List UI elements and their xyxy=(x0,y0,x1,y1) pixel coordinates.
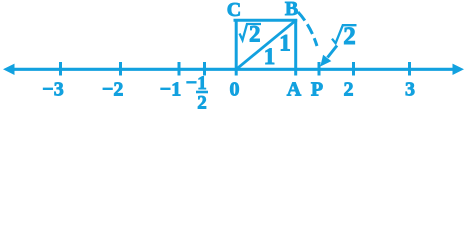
svg-text:1: 1 xyxy=(264,44,276,69)
right arrowhead xyxy=(453,64,465,75)
svg-text:2: 2 xyxy=(197,93,207,112)
sqrt2 radical inside square xyxy=(240,24,262,40)
label -1/2 fraction bar xyxy=(196,91,208,94)
dashed arc from B xyxy=(298,12,317,46)
tick 2 xyxy=(352,62,355,76)
svg-text:−1: −1 xyxy=(160,79,181,101)
svg-text:3: 3 xyxy=(405,79,415,101)
pointer arrowhead at P xyxy=(320,55,331,67)
pointer arrow shaft from sqrt2 label to P xyxy=(328,46,338,58)
square OABC top edge xyxy=(234,19,298,22)
svg-text:P: P xyxy=(311,79,323,101)
tick -1 xyxy=(178,62,181,76)
svg-text:0: 0 xyxy=(230,79,240,101)
svg-text:A: A xyxy=(287,79,302,101)
number line xyxy=(11,68,456,71)
svg-text:−3: −3 xyxy=(42,79,63,101)
sqrt2 radical right label xyxy=(332,25,357,43)
svg-text:−2: −2 xyxy=(102,79,123,101)
tick 0 / square left edge xyxy=(235,19,238,76)
svg-text:−: − xyxy=(186,72,197,94)
svg-text:2: 2 xyxy=(344,79,354,101)
tick P xyxy=(318,62,321,76)
tick -2 xyxy=(119,62,122,76)
svg-text:B: B xyxy=(285,0,298,20)
svg-text:2: 2 xyxy=(343,23,356,50)
svg-text:1: 1 xyxy=(279,31,291,56)
svg-text:C: C xyxy=(227,0,241,21)
diagonal OB xyxy=(236,20,296,69)
svg-text:2: 2 xyxy=(249,21,261,46)
tick -1/2 xyxy=(203,62,206,76)
tick -3 xyxy=(59,62,62,76)
left arrowhead xyxy=(3,64,15,75)
tick A / square right edge xyxy=(294,19,297,76)
tick 3 xyxy=(408,62,411,76)
